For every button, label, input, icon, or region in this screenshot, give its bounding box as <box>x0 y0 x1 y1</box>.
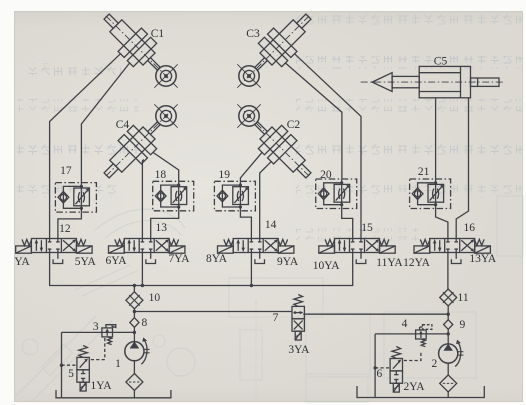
wire C2 pipe to throttle box 19 <box>240 152 262 181</box>
label 7 <box>273 312 279 324</box>
relief valve 3 <box>102 325 116 345</box>
label 20 <box>320 169 332 181</box>
wire pump 1 suction <box>133 361 135 374</box>
svg-text:12: 12 <box>59 223 71 235</box>
svg-text:10YA: 10YA <box>313 260 341 272</box>
unloading valve 5 <box>77 345 89 391</box>
svg-text:14: 14 <box>265 219 277 231</box>
wire manifold bus <box>50 253 353 286</box>
tank under valve 15 <box>356 253 366 264</box>
wire pilot line valve3-valve5 <box>89 338 105 360</box>
svg-text:6: 6 <box>377 368 383 380</box>
tank left <box>56 390 171 398</box>
svg-text:YA: YA <box>14 256 30 268</box>
label 5YA <box>75 256 97 268</box>
wire C5 rod-end pipe to valve 16 port B <box>456 98 468 239</box>
bypass valve 7 <box>292 294 304 340</box>
check valve 8 <box>130 318 139 328</box>
tank under valve 13 <box>146 253 156 264</box>
unloading valve 6 <box>390 347 402 393</box>
wire box 20 outlet to valve 15 port A <box>342 209 353 239</box>
cylinder C4 <box>94 92 189 187</box>
svg-text:7: 7 <box>273 312 279 324</box>
svg-text:5YA: 5YA <box>75 256 97 268</box>
filter 10 <box>126 292 143 309</box>
wire relief line left <box>62 331 135 333</box>
suction filter right <box>440 375 457 392</box>
label 10YA <box>313 260 341 272</box>
wire box 21 outlet to valve 16 port A <box>436 209 448 239</box>
svg-text:15: 15 <box>361 222 373 234</box>
svg-text:11YA: 11YA <box>376 257 403 269</box>
label 8 <box>142 317 148 329</box>
cylinder C5 <box>361 66 503 97</box>
label C5 <box>434 56 448 68</box>
directional valve 13 <box>109 239 185 254</box>
check valve 9 <box>444 320 453 330</box>
svg-text:C1: C1 <box>151 28 165 40</box>
wire C4 pipe to valve 13 port A <box>142 160 143 239</box>
one-way throttle valve 18 <box>153 181 194 211</box>
label 11 <box>458 292 469 304</box>
svg-text:6YA: 6YA <box>105 255 127 267</box>
junction pilot tap right <box>373 366 376 369</box>
label C4 <box>116 119 130 131</box>
wire C1 cap-end pipe to valve 12 port A <box>50 54 121 239</box>
junction pilot tap left <box>60 364 63 367</box>
cylinder C1 <box>94 4 189 99</box>
label C1 <box>151 28 165 40</box>
svg-text:21: 21 <box>418 166 430 178</box>
label 17 <box>60 165 72 177</box>
svg-text:C4: C4 <box>116 119 130 131</box>
junction manifold-valve14 <box>250 284 253 287</box>
wire C3 pipe to valve 15 port B <box>295 54 361 239</box>
tank under valve 14 <box>255 253 265 264</box>
pump 2 <box>439 340 464 367</box>
svg-text:19: 19 <box>219 169 231 181</box>
wire valve 16 P down to filter 11 <box>447 253 449 290</box>
wire box 18 outlet to valve 13 port B <box>151 211 179 239</box>
label 5 <box>68 368 74 380</box>
wire pilot line tap-valve6 <box>375 367 390 369</box>
one-way throttle valve 20 <box>316 179 357 209</box>
wire relief return to tank left <box>61 332 63 397</box>
wire manifold down to filter 10 <box>133 286 135 292</box>
one-way throttle valve 17 <box>55 183 96 213</box>
svg-text:13YA: 13YA <box>469 253 497 265</box>
svg-text:3: 3 <box>93 321 99 333</box>
svg-text:8: 8 <box>142 317 148 329</box>
wire pilot line tap-valve5 <box>62 364 77 366</box>
svg-text:13: 13 <box>156 222 168 234</box>
junction pump 2 pressure node <box>447 332 450 335</box>
directional valve 12 <box>16 239 92 254</box>
filter 11 <box>440 289 457 306</box>
svg-text:18: 18 <box>155 169 167 181</box>
label 11YA <box>376 257 403 269</box>
label 21 <box>418 166 430 178</box>
junction bypass branch left <box>133 310 136 313</box>
pump 1 <box>125 338 150 365</box>
svg-text:2YA: 2YA <box>403 381 425 393</box>
svg-text:3YA: 3YA <box>288 344 310 356</box>
label 9YA <box>277 256 299 268</box>
label 14 <box>265 219 277 231</box>
label 18 <box>155 169 167 181</box>
tank under valve 12 <box>53 253 63 264</box>
svg-text:1YA: 1YA <box>90 380 112 392</box>
label 4YA <box>14 256 30 268</box>
svg-text:16: 16 <box>464 222 476 234</box>
svg-text:C3: C3 <box>246 28 260 40</box>
svg-text:2: 2 <box>432 358 438 370</box>
suction filter left <box>126 374 143 391</box>
wire check valve 9 to pump 2 <box>447 329 449 344</box>
wire valve 13 P to manifold <box>141 253 143 286</box>
wire filter 10 to check valve 8 <box>133 309 135 318</box>
label 10 <box>149 292 161 304</box>
tank right <box>357 386 484 398</box>
svg-text:C5: C5 <box>434 56 448 68</box>
tank under valve 16 <box>451 253 461 264</box>
directional valve 16 <box>414 239 490 254</box>
svg-text:9: 9 <box>460 319 466 331</box>
junction pump 1 pressure node <box>133 331 136 334</box>
directional valve 15 <box>319 239 395 254</box>
wire relief line right <box>375 333 448 335</box>
label 12YA <box>403 257 431 269</box>
junction manifold-valve13 <box>141 284 144 287</box>
wire box 19 outlet to valve 14 port A <box>240 211 251 239</box>
wire relief return to tank right <box>374 334 376 398</box>
bleed-through mirrored text <box>17 13 522 241</box>
label 7YA <box>168 253 190 265</box>
wire valve 14 P to manifold <box>250 253 252 286</box>
label C2 <box>287 119 301 131</box>
svg-text:17: 17 <box>60 165 72 177</box>
wire branch right segment <box>303 313 448 315</box>
label 2 <box>432 358 438 370</box>
wire C2 pipe to valve 14 port B <box>260 162 272 239</box>
svg-text:7YA: 7YA <box>168 253 190 265</box>
label 6YA <box>105 255 127 267</box>
junction branch right <box>447 313 450 316</box>
label 3 <box>93 321 99 333</box>
svg-text:5: 5 <box>68 368 74 380</box>
label 8YA <box>206 253 228 265</box>
wire box 17 outlet to valve 12 port B <box>58 212 82 238</box>
svg-text:20: 20 <box>320 169 332 181</box>
label C3 <box>246 28 260 40</box>
wire suction filter to tank right <box>447 391 449 397</box>
label 19 <box>219 169 231 181</box>
wire pilot line valve4-valve6 <box>403 353 421 361</box>
bleed-through ghost diagram <box>16 196 523 402</box>
wire check valve 8 to pump 1 <box>133 327 135 342</box>
wire filter 11 to check valve 9 <box>447 306 449 320</box>
svg-text:C2: C2 <box>287 119 301 131</box>
label 2YA <box>403 381 425 393</box>
label 6 <box>377 368 383 380</box>
cylinder C2 <box>225 92 320 187</box>
label 1YA <box>90 380 112 392</box>
one-way throttle valve 21 <box>410 179 451 209</box>
label 3YA <box>288 344 310 356</box>
junction manifold-filter10 <box>133 284 136 287</box>
label 16 <box>464 222 476 234</box>
label 15 <box>361 222 373 234</box>
wire C1 rod-end pipe to throttle box 17 <box>81 63 129 183</box>
wire C3 pipe to throttle box 20 <box>285 63 342 179</box>
label 13YA <box>469 253 497 265</box>
label 4 <box>402 318 408 330</box>
label 1 <box>115 358 121 370</box>
svg-text:8YA: 8YA <box>206 253 228 265</box>
label 12 <box>59 223 71 235</box>
relief valve 4 <box>416 325 432 347</box>
wire branch left segment <box>134 311 292 313</box>
svg-text:4: 4 <box>402 318 408 330</box>
wire C5 cap-end pipe to throttle box 21 <box>435 98 437 179</box>
wire suction filter to tank left <box>133 390 135 398</box>
svg-text:1: 1 <box>115 358 121 370</box>
wire pump 2 suction <box>447 363 449 375</box>
svg-text:10: 10 <box>149 292 161 304</box>
label 9 <box>460 319 466 331</box>
label 13 <box>156 222 168 234</box>
directional valve 14 <box>218 239 294 254</box>
svg-text:11: 11 <box>458 292 469 304</box>
svg-text:9YA: 9YA <box>277 256 299 268</box>
wire C4 pipe to throttle box 18 <box>153 152 179 181</box>
one-way throttle valve 19 <box>214 181 255 211</box>
svg-text:12YA: 12YA <box>403 257 431 269</box>
cylinder C3 <box>225 4 320 99</box>
